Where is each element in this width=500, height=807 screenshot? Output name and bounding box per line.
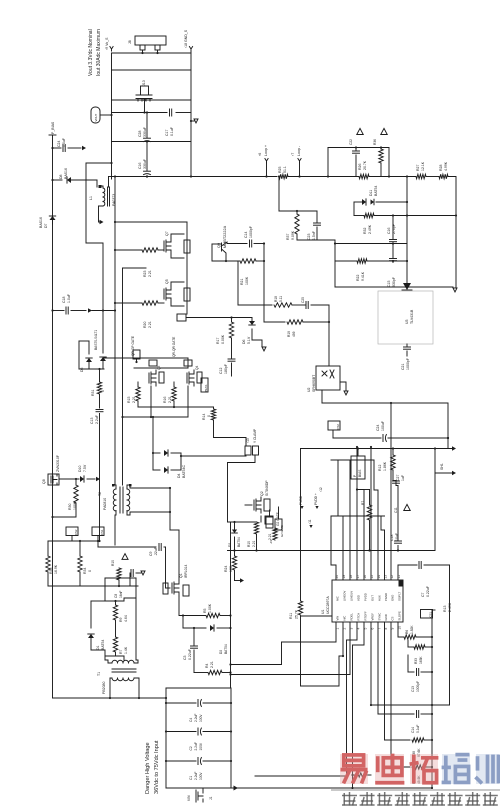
- svg-text:‹19: ‹19: [269, 540, 273, 544]
- wire pin1 down: [231, 622, 337, 665]
- capacitor C7: [398, 564, 417, 566]
- resistor R39: [412, 765, 424, 769]
- wire pin17 up: [356, 447, 358, 580]
- svg-text:R23: R23: [143, 271, 147, 277]
- svg-text:C15: C15: [387, 281, 391, 287]
- svg-text:‹13: ‹13: [246, 438, 250, 443]
- svg-text:Q4: Q4: [195, 365, 199, 370]
- svg-text:TLV431B: TLV431B: [410, 309, 414, 324]
- svg-text:2.2uF: 2.2uF: [194, 772, 198, 780]
- svg-text:4.64: 4.64: [124, 615, 128, 622]
- svg-text:2.49K: 2.49K: [368, 224, 372, 234]
- connector pin Q4 gate: [184, 360, 192, 366]
- net arrow d10: [96, 477, 100, 481]
- wire comp right vertical x407: [406, 177, 408, 288]
- svg-text:R36: R36: [373, 139, 377, 145]
- svg-text:C16: C16: [138, 163, 142, 169]
- wire c12 down: [231, 372, 233, 376]
- svg-text:C12: C12: [219, 368, 223, 374]
- wire d6 gnd: [252, 340, 262, 346]
- resistor R1 sense: [353, 774, 356, 776]
- wire right gnd rail x191: [190, 51, 192, 177]
- svg-text:Danger High Voltage: Danger High Voltage: [145, 742, 151, 794]
- svg-text:19: 19: [342, 575, 346, 579]
- svg-text:100uF: 100uF: [381, 421, 385, 431]
- svg-text:BAT54: BAT54: [374, 186, 378, 196]
- transistor Q4: [186, 373, 188, 383]
- wire pin16 up: [357, 490, 364, 581]
- wire pin18 up: [349, 460, 351, 580]
- svg-text:SLOPE: SLOPE: [398, 611, 402, 620]
- inductor L1: [96, 180, 98, 187]
- svg-text:Q2: Q2: [260, 491, 264, 496]
- svg-text:T2: T2: [98, 492, 102, 496]
- svg-text:R10: R10: [111, 560, 115, 566]
- net label P_BIAS box: [351, 456, 365, 479]
- svg-text:T1: T1: [97, 672, 101, 676]
- svg-text:2.21: 2.21: [132, 396, 136, 403]
- wire right rail x449: [449, 565, 451, 705]
- svg-text:D4: D4: [177, 473, 181, 478]
- resistor R20 gate: [115, 302, 142, 304]
- svg-text:ZVN3310F: ZVN3310F: [56, 455, 60, 472]
- wire pbias top y448: [301, 448, 453, 450]
- svg-text:QR-QR GATE: QR-QR GATE: [172, 336, 176, 357]
- svg-text:1000pF: 1000pF: [416, 681, 420, 692]
- wire q7 q5 drain bus: [186, 222, 188, 314]
- capacitor C4 input: [166, 702, 196, 704]
- wire input bottom rail: [166, 787, 231, 789]
- svg-text:P_BIAS: P_BIAS: [51, 121, 55, 134]
- wire center rail x115: [111, 177, 113, 180]
- ground arrow cs: [138, 572, 141, 574]
- svg-text:C8: C8: [114, 594, 118, 598]
- svg-text:11: 11: [397, 575, 401, 579]
- wire pin12 up: [390, 403, 392, 580]
- svg-text:D2: D2: [219, 650, 223, 654]
- wire t1 box right: [135, 578, 137, 660]
- wire L1 to vout rail: [108, 177, 110, 188]
- wire pbias right vertical: [434, 473, 436, 551]
- svg-text:0.1uF: 0.1uF: [416, 725, 420, 733]
- connector pin Q3 gate: [149, 360, 157, 366]
- capacitor C14b: [378, 713, 414, 715]
- resistor R26: [359, 174, 369, 178]
- wire bottom bus y776: [255, 775, 347, 777]
- wire rail y70: [112, 69, 192, 71]
- svg-text:D8: D8: [59, 174, 63, 179]
- diode D7: [50, 216, 56, 220]
- svg-text:BIAS: BIAS: [358, 469, 362, 477]
- capacitor C24 bias: [53, 147, 62, 149]
- svg-text:100K: 100K: [245, 276, 249, 285]
- wire y705 right: [414, 704, 432, 706]
- svg-text:16nF: 16nF: [119, 591, 123, 598]
- svg-text:SH1: SH1: [440, 463, 444, 470]
- wire J13 stub: [144, 101, 146, 113]
- resistor R27: [416, 174, 426, 178]
- wire pin14 up: [374, 460, 378, 580]
- wire comp y211: [279, 210, 317, 212]
- svg-text:2.2uF: 2.2uF: [194, 742, 198, 750]
- ground pin GND_S right: [191, 120, 194, 122]
- svg-text:C25: C25: [301, 297, 305, 303]
- wire t1 box left: [104, 578, 106, 601]
- svg-text:VIN: VIN: [336, 616, 340, 621]
- wire comp y240: [297, 240, 335, 244]
- svg-text:1.4K: 1.4K: [124, 646, 128, 654]
- svg-text:2.21: 2.21: [148, 270, 152, 277]
- svg-text:RTOFF: RTOFF: [364, 611, 368, 621]
- resistor R23 gate: [115, 249, 142, 251]
- svg-text:C3: C3: [183, 655, 187, 660]
- wire comp box left: [334, 244, 336, 288]
- svg-text:Loop -: Loop -: [297, 145, 301, 156]
- svg-text:C27: C27: [396, 475, 400, 481]
- svg-text:D2: D2: [228, 543, 232, 547]
- svg-text:C7: C7: [421, 592, 425, 597]
- wire r11 down to t1 area: [301, 616, 344, 686]
- connector J18: [275, 519, 282, 530]
- wire right column rail: [431, 610, 433, 790]
- svg-text:100V: 100V: [199, 714, 203, 722]
- svg-text:1.00K: 1.00K: [208, 603, 212, 613]
- resistor R18: [274, 303, 292, 307]
- node VOUT label: [91, 107, 100, 123]
- svg-text:R19: R19: [287, 331, 291, 337]
- svg-text:R16: R16: [163, 397, 167, 403]
- svg-text:N/C: N/C: [343, 616, 347, 621]
- svg-text:N/C: N/C: [336, 596, 340, 601]
- ic U1 pin11 pad: [399, 581, 404, 587]
- svg-text:2.49K: 2.49K: [448, 602, 452, 612]
- svg-text:12: 12: [390, 575, 394, 579]
- svg-text:D5: D5: [80, 367, 84, 372]
- wire gate lower bus1: [104, 357, 188, 359]
- wire gate bottom bus B: [123, 416, 189, 418]
- svg-text:2.2uF: 2.2uF: [95, 415, 99, 424]
- svg-text:R28: R28: [439, 165, 443, 171]
- wire rail y176 mid3: [426, 176, 439, 178]
- svg-text:2.21: 2.21: [168, 396, 172, 403]
- resistor R25 loop: [279, 174, 288, 178]
- svg-text:1.5nF: 1.5nF: [312, 231, 316, 240]
- wire pin20 up: [331, 516, 336, 580]
- wire pin6 down: [371, 622, 414, 705]
- wire left vout rail x111: [111, 53, 113, 177]
- svg-text:RTCH: RTCH: [357, 613, 361, 621]
- svg-text:R6: R6: [405, 630, 409, 634]
- svg-text:R30: R30: [68, 504, 72, 510]
- svg-text:16: 16: [363, 575, 367, 579]
- svg-text:IRFL014: IRFL014: [184, 565, 188, 578]
- resistor R33 right: [414, 645, 425, 649]
- wire comp box bottom y287: [335, 286, 453, 288]
- svg-text:BIAS: BIAS: [204, 385, 208, 392]
- svg-text:R32: R32: [363, 228, 367, 234]
- connector J16: [177, 314, 186, 321]
- svg-text:830pF: 830pF: [392, 277, 396, 287]
- wire pin15 up: [370, 447, 372, 580]
- svg-text:Iout 30Adc Maximum: Iout 30Adc Maximum: [96, 29, 102, 76]
- svg-text:20.7K: 20.7K: [363, 160, 367, 170]
- wire bottom bus y788: [231, 787, 432, 789]
- svg-text:BAT54: BAT54: [224, 644, 228, 654]
- wire aux bus y516: [331, 515, 385, 517]
- ground arrow d6: [262, 347, 266, 351]
- svg-text:VIN: VIN: [187, 795, 191, 801]
- svg-text:D1: D1: [96, 645, 100, 650]
- svg-text:C2: C2: [189, 746, 193, 750]
- resistor R28: [439, 174, 448, 178]
- wire pin7 down: [378, 622, 414, 714]
- svg-text:C18: C18: [62, 297, 66, 303]
- wire q2 gate row y550: [228, 550, 436, 552]
- net arrow input: [234, 786, 239, 791]
- svg-text:VOUT: VOUT: [94, 113, 98, 121]
- svg-text:180pF: 180pF: [224, 364, 228, 374]
- wire d11 stub: [353, 202, 355, 216]
- capacitor C1 input: [166, 760, 196, 762]
- svg-text:20: 20: [335, 575, 339, 579]
- transistor Q3: [148, 373, 150, 383]
- svg-text:BAS70-04LT1: BAS70-04LT1: [94, 330, 98, 350]
- svg-text:Q3: Q3: [157, 365, 161, 370]
- svg-text:R27: R27: [416, 165, 420, 171]
- svg-text:R12: R12: [378, 465, 382, 471]
- wire pin5 down long: [353, 622, 365, 788]
- wire gate lower bus2: [134, 367, 188, 369]
- wire pin3 down: [231, 622, 351, 675]
- svg-text:C13: C13: [411, 686, 415, 692]
- wire pin8 down: [385, 622, 411, 740]
- svg-text:BAS16: BAS16: [64, 168, 68, 179]
- net arrow VOUT from C24: [82, 146, 86, 150]
- capacitor C2 input: [166, 731, 196, 733]
- ground arrow comp right: [453, 288, 457, 292]
- svg-text:R25: R25: [278, 167, 282, 173]
- svg-text:PVDD −: PVDD −: [299, 493, 303, 505]
- svg-text:C14: C14: [411, 727, 415, 733]
- svg-text:1.0uF: 1.0uF: [67, 294, 71, 303]
- svg-text:BAT54: BAT54: [101, 640, 105, 650]
- wire pin19 up: [338, 460, 343, 580]
- svg-text:17: 17: [356, 575, 360, 579]
- svg-text:R11: R11: [289, 613, 293, 619]
- svg-text:R15: R15: [127, 397, 131, 403]
- svg-text:12.1K: 12.1K: [421, 161, 425, 171]
- wire input right rail: [230, 688, 232, 788]
- resistor R38: [412, 738, 424, 742]
- wire input top y688: [166, 687, 231, 689]
- svg-text:C28: C28: [138, 131, 142, 137]
- svg-text:5.11: 5.11: [279, 296, 283, 302]
- svg-text:SYNC: SYNC: [378, 613, 382, 621]
- svg-text:0.1uF: 0.1uF: [170, 127, 174, 136]
- svg-text:C9: C9: [149, 551, 153, 556]
- svg-text:R9: R9: [119, 617, 123, 622]
- svg-text:Q5: Q5: [165, 279, 169, 284]
- svg-text:R33: R33: [414, 658, 418, 664]
- connector J19: [266, 517, 273, 528]
- svg-text:Q8: Q8: [42, 479, 46, 484]
- net label CS2 box left: [66, 527, 78, 536]
- svg-text:U2: U2: [307, 387, 311, 392]
- svg-text:Q7: Q7: [165, 231, 169, 236]
- svg-text:C24: C24: [57, 141, 61, 147]
- wire rail y112 with C17: [112, 112, 168, 114]
- svg-text:CS2: CS2: [74, 529, 78, 535]
- connector J17: [265, 516, 273, 524]
- wire t2 to q1 drain: [169, 488, 171, 530]
- svg-text:C21: C21: [401, 364, 405, 370]
- svg-text:VDD: VDD: [357, 595, 361, 601]
- svg-text:1000pF: 1000pF: [406, 358, 410, 370]
- svg-text:D10: D10: [78, 466, 82, 472]
- svg-text:R31: R31: [91, 390, 95, 396]
- svg-text:C24: C24: [376, 425, 380, 431]
- svg-text:1.0uF: 1.0uF: [62, 138, 66, 147]
- capacitor C9 sense: [98, 546, 156, 548]
- svg-text:‹6: ‹6: [258, 153, 262, 156]
- wire mid input rail: [230, 522, 232, 688]
- wire pin9 down: [391, 622, 410, 767]
- wire aux bus y460: [331, 459, 374, 461]
- svg-text:2.21: 2.21: [148, 321, 152, 328]
- wire sh1 arrows: [452, 446, 456, 450]
- svg-text:R13: R13: [443, 606, 447, 612]
- capacitor C28: [146, 113, 148, 139]
- svg-text:Q1: Q1: [179, 573, 183, 578]
- svg-text:Vout 3.3Vdc Nominal: Vout 3.3Vdc Nominal: [88, 29, 94, 76]
- svg-text:R34: R34: [83, 568, 87, 574]
- svg-text:BAS16: BAS16: [39, 217, 43, 228]
- svg-text:SFH690BT: SFH690BT: [312, 374, 316, 392]
- svg-text:SS/FLT: SS/FLT: [398, 591, 402, 601]
- ic U1 UCC2897A body: [332, 580, 403, 622]
- wire comp y261 with R22: [335, 260, 357, 262]
- svg-text:UCC2897A: UCC2897A: [326, 596, 330, 614]
- net label BIAS box: [201, 378, 208, 392]
- svg-text:BAT54C: BAT54C: [182, 465, 186, 478]
- svg-text:9.41K: 9.41K: [361, 271, 365, 281]
- svg-text:5.1V: 5.1V: [247, 336, 251, 344]
- wire vout left rail x86: [86, 163, 112, 311]
- wire pin13 up: [381, 516, 385, 580]
- svg-text:0.22uF: 0.22uF: [188, 649, 192, 660]
- wire comp feed y215 with R32: [354, 215, 364, 217]
- svg-text:P_: P_: [353, 473, 357, 477]
- svg-text:PVDD +: PVDD +: [314, 493, 318, 505]
- wire P_BIAS down: [52, 135, 54, 148]
- wire pin10 down: [398, 622, 404, 637]
- svg-text:R18: R18: [274, 296, 278, 302]
- wire j16 bus right: [186, 317, 252, 319]
- svg-text:LINEOV: LINEOV: [343, 591, 347, 601]
- wire J8 pin1: [142, 50, 144, 53]
- wire bias rail x52: [52, 148, 54, 698]
- svg-text:9.09K: 9.09K: [291, 230, 295, 240]
- svg-text:R14: R14: [202, 414, 206, 420]
- wire opto out to right: [322, 403, 448, 449]
- svg-text:C11: C11: [394, 507, 398, 513]
- svg-text:PVDD: PVDD: [364, 593, 368, 601]
- wire comp box top y243: [335, 243, 407, 245]
- resistor R19: [264, 321, 285, 323]
- wire pin1 feed: [301, 615, 333, 617]
- svg-text:R22: R22: [356, 275, 360, 281]
- svg-text:1uF: 1uF: [401, 475, 405, 481]
- net label CS1 box right: [421, 610, 433, 619]
- svg-text:14: 14: [377, 575, 381, 579]
- svg-text:100V: 100V: [199, 772, 203, 780]
- wire q2 stub: [245, 504, 252, 506]
- svg-text:1.86K: 1.86K: [383, 461, 387, 471]
- svg-text:RDEL: RDEL: [350, 613, 354, 621]
- svg-text:1.82K: 1.82K: [410, 625, 414, 634]
- svg-text:J1: J1: [209, 796, 213, 800]
- wire gate q2 row top: [228, 521, 257, 523]
- svg-text:D6: D6: [242, 339, 246, 344]
- svg-text:C14: C14: [244, 232, 248, 238]
- capacitor C24b: [333, 437, 381, 439]
- ground arrow opto: [340, 382, 346, 390]
- svg-text:D11: D11: [369, 190, 373, 196]
- svg-text:Si7846DP: Si7846DP: [265, 480, 269, 496]
- wire comp left vertical from rail: [278, 177, 280, 212]
- svg-text:0.22uF: 0.22uF: [426, 586, 430, 597]
- wire rail y141: [112, 141, 192, 143]
- svg-text:C22: C22: [349, 139, 353, 145]
- svg-text:.22uF: .22uF: [154, 547, 158, 556]
- svg-text:‹9 Vo_S: ‹9 Vo_S: [105, 37, 109, 50]
- svg-text:J13: J13: [142, 80, 146, 86]
- svg-text:330uF: 330uF: [143, 159, 147, 169]
- watermark underline: [331, 789, 500, 791]
- wire rail y176 right end: [448, 177, 456, 288]
- wire bottom bias rail: [53, 697, 167, 699]
- svg-text:PGND: PGND: [384, 593, 388, 601]
- watermark logo red and blue: [340, 754, 368, 784]
- svg-text:‹7: ‹7: [291, 153, 295, 156]
- capacitor C18: [53, 310, 65, 312]
- wire cs div bottom: [48, 585, 138, 587]
- wire r18 feed: [238, 304, 272, 306]
- wire cs div top: [48, 540, 100, 542]
- svg-text:R5: R5: [203, 608, 207, 613]
- svg-text:15: 15: [370, 575, 374, 579]
- svg-text:G2 GATE: G2 GATE: [280, 525, 284, 537]
- wire VOUT rail y53: [112, 52, 192, 54]
- resistor R6 slope: [404, 635, 416, 639]
- wire rail y176 mid2: [369, 176, 416, 178]
- wire t1 box top: [105, 577, 136, 579]
- svg-text:R26: R26: [358, 164, 362, 170]
- svg-text:R24: R24: [224, 566, 228, 572]
- svg-text:1000pF: 1000pF: [249, 226, 253, 238]
- wire rail y176 mid: [288, 176, 359, 178]
- svg-text:GND: GND: [384, 614, 388, 620]
- svg-text:LINEUV: LINEUV: [350, 591, 354, 601]
- svg-text:Loop +: Loop +: [264, 145, 268, 156]
- svg-text:4.99K: 4.99K: [444, 161, 448, 171]
- svg-text:PA0810: PA0810: [103, 498, 107, 510]
- svg-text:AUX: AUX: [378, 595, 382, 601]
- svg-text:16.9K: 16.9K: [54, 564, 58, 574]
- svg-text:R7: R7: [119, 649, 123, 654]
- wire rail top jog: [432, 609, 435, 611]
- wire c9 to q1 gate: [166, 547, 171, 588]
